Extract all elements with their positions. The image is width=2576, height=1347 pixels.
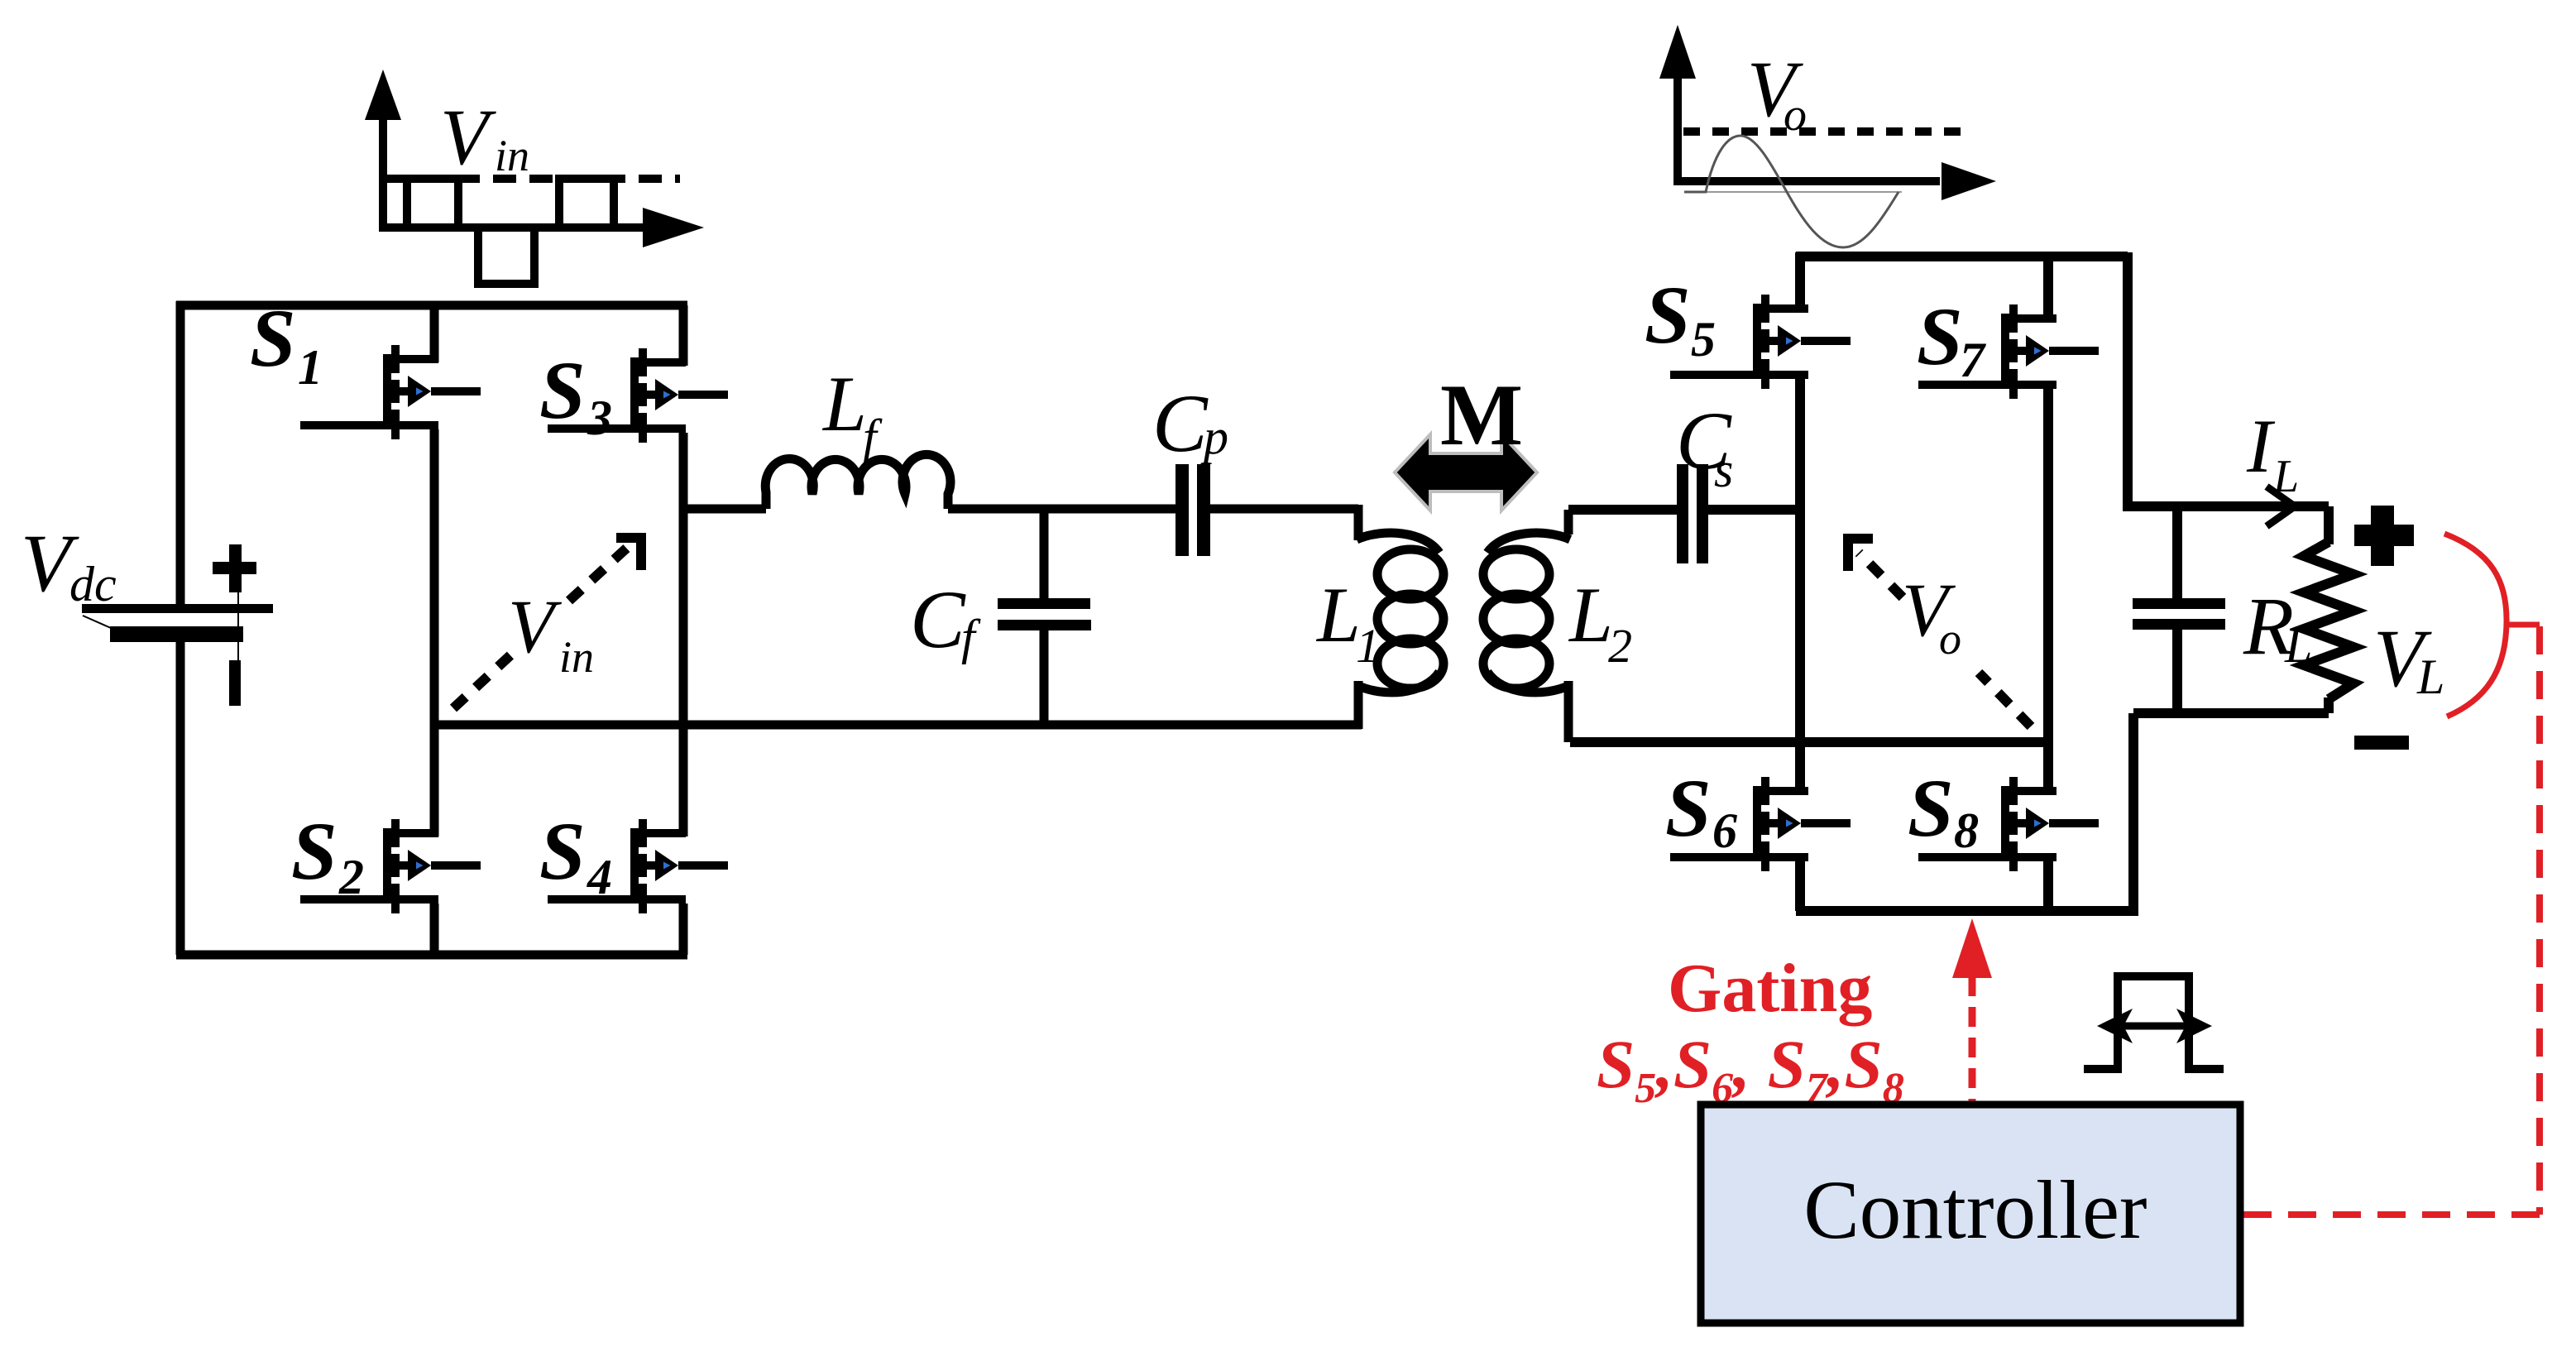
svg-text:2: 2: [338, 850, 364, 904]
svg-text:S: S: [1917, 290, 1963, 382]
svg-text:L: L: [1568, 571, 1613, 659]
svg-text:L: L: [2272, 451, 2299, 502]
svg-text:s: s: [1714, 443, 1733, 497]
svg-text:3: 3: [587, 391, 612, 445]
svg-text:Gating: Gating: [1668, 950, 1872, 1027]
svg-text:5: 5: [1691, 312, 1716, 367]
svg-text:L: L: [821, 360, 867, 448]
svg-text:4: 4: [587, 850, 612, 904]
svg-text:6: 6: [1712, 803, 1737, 858]
svg-text:o: o: [1784, 89, 1807, 141]
svg-text:S: S: [1908, 762, 1954, 854]
svg-text:o: o: [1939, 614, 1961, 664]
svg-text:C: C: [1152, 377, 1209, 469]
svg-text:S: S: [1645, 269, 1691, 361]
svg-text:in: in: [559, 632, 594, 682]
svg-text:L: L: [2284, 618, 2312, 673]
svg-text:in: in: [495, 131, 529, 180]
svg-text:L: L: [1315, 571, 1361, 659]
svg-text:p: p: [1200, 410, 1228, 464]
svg-text:L: L: [2416, 650, 2444, 704]
svg-text:S: S: [1665, 762, 1712, 854]
svg-text:7: 7: [1960, 333, 1986, 387]
svg-text:S: S: [250, 292, 296, 384]
svg-text:1: 1: [298, 340, 323, 395]
svg-text:dc: dc: [69, 557, 117, 611]
svg-text:V: V: [440, 93, 496, 181]
svg-text:Controller: Controller: [1803, 1163, 2147, 1256]
svg-text:C: C: [910, 573, 966, 665]
svg-text:I: I: [2246, 404, 2276, 488]
svg-text:8: 8: [1954, 803, 1979, 858]
svg-text:V: V: [508, 584, 563, 669]
svg-text:S: S: [291, 805, 338, 897]
svg-text:1: 1: [1356, 619, 1380, 673]
svg-text:S: S: [539, 344, 586, 436]
svg-text:S: S: [539, 805, 586, 897]
svg-text:2: 2: [1608, 619, 1632, 673]
svg-text:M: M: [1440, 367, 1523, 463]
